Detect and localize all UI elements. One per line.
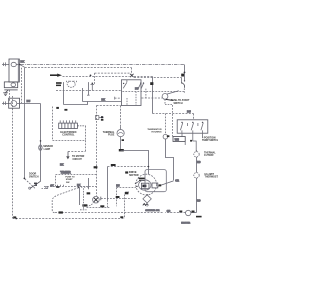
wire push-to-start down rail (172, 105, 174, 137)
svg-text:MOTOR: MOTOR (129, 174, 138, 177)
label HI-LIMIT THERMOSTAT (205, 173, 222, 179)
cluster right tick (87, 94, 90, 96)
wire splice to start circuit (134, 76, 153, 78)
svg-text:BK: BK (60, 163, 64, 166)
ground symbol (3, 90, 8, 96)
svg-text:SWITCH: SWITCH (29, 175, 39, 178)
motor inner winding ellipse (139, 180, 151, 190)
label DRIVE MOTOR (129, 171, 139, 177)
wire x107 drop (107, 167, 109, 201)
label RD heater left (179, 211, 182, 213)
label BK rail (94, 166, 98, 168)
svg-text:SWITCH: SWITCH (174, 103, 183, 105)
svg-text:CENTRIF. SW.: CENTRIF. SW. (145, 210, 160, 212)
to-motor arrow dashed link (68, 151, 86, 153)
temp switch mid contacts (187, 123, 198, 126)
push-to-start pivot dot (181, 82, 182, 83)
wire dashed harness top (97, 105, 121, 107)
centrifugal dark contacts (143, 204, 149, 206)
mid housing lower line (4, 89, 17, 91)
connector dashed extension (77, 125, 85, 127)
label WH y207 (100, 205, 104, 207)
heater element circle (186, 210, 191, 215)
node L1 junction (19, 64, 21, 66)
temp switch pole 3 (201, 122, 203, 133)
wire indicator to rail (165, 104, 173, 106)
wire temp switch drop (193, 114, 195, 120)
terminal block upper housing (9, 59, 19, 82)
label THERMISTOR HOUSING (147, 129, 162, 133)
timer contact ticks left (58, 185, 64, 187)
wire indicator drop (164, 99, 166, 104)
wire harness left dashed (52, 107, 54, 140)
to-motor arrow (66, 152, 69, 160)
svg-text:START: START (66, 178, 74, 181)
wire N to door circuit (17, 103, 41, 105)
wire dashed rail to splice (25, 67, 132, 69)
wire from dash-dot rail corner (184, 65, 186, 81)
wire dashed mid rail (56, 90, 122, 92)
junction sensor tap (40, 140, 42, 142)
door switch arm (30, 181, 40, 188)
hi-limit thermostat (194, 173, 199, 178)
terminal comp right of cluster (91, 83, 95, 91)
timer contact dark block (56, 186, 59, 188)
connector pins (60, 120, 75, 123)
thermal fuse (117, 126, 124, 150)
svg-text:THERMOSTAT: THERMOSTAT (205, 176, 219, 179)
wire down from thermistor (166, 139, 174, 180)
timer motor label block (56, 82, 62, 86)
wire timer down stub (79, 187, 81, 205)
sensor comp near rail (95, 116, 103, 120)
enclosure right dashed (85, 126, 87, 141)
svg-text:BK: BK (20, 60, 24, 64)
label RD heater right (192, 211, 195, 213)
indicator switch arm (167, 91, 179, 94)
wire pole3 stub (202, 133, 204, 137)
wire start box to indicator dashed (142, 97, 163, 99)
buzzer X (94, 198, 98, 202)
label below fuse (122, 139, 124, 141)
svg-text:TEMP SWITCH: TEMP SWITCH (202, 139, 218, 142)
wire BK dash-dot rail to push-to-start (20, 64, 184, 66)
label BU motor top (125, 171, 128, 173)
timer contacts row dashed (44, 186, 97, 188)
svg-text:BU: BU (187, 110, 191, 114)
label SENSOR LAMP (43, 146, 53, 151)
svg-text:OR: OR (175, 179, 179, 182)
push-to-start lower contact dot (184, 80, 185, 81)
wire N vertical to door switch (40, 104, 42, 182)
timer motor pin ticks (67, 81, 77, 83)
centrifugal switch enclosure (145, 170, 166, 192)
indicator arrow (166, 99, 174, 100)
wire junction diagonal (25, 179, 35, 189)
svg-text:TO MOTOR: TO MOTOR (72, 156, 85, 158)
timer sub labels (65, 176, 75, 184)
terminal block lower housing (9, 98, 20, 108)
wire timer out curve (52, 188, 78, 213)
start box inner dashed drop 2 (135, 92, 137, 106)
wire center dashed rail long (96, 106, 98, 197)
wire pole2 drop (192, 133, 194, 141)
label WH on rail (59, 211, 63, 213)
svg-text:CIRCUIT: CIRCUIT (73, 159, 83, 161)
svg-text:BU: BU (135, 87, 139, 90)
junction timer out (78, 187, 80, 189)
temperature selector switch box (177, 120, 208, 133)
start box switch 1 (123, 80, 127, 89)
door switch pivot circle (29, 187, 31, 189)
label BK buzzer (87, 192, 91, 194)
svg-text:BK: BK (77, 184, 81, 187)
wire bottom dashed rail (13, 218, 125, 220)
svg-text:HOUSING: HOUSING (152, 132, 162, 134)
wire harness drop to fuse (120, 106, 122, 127)
wire switch2 to indicator (145, 89, 147, 98)
thermal cutoff (194, 150, 199, 157)
start box inner dashed (122, 91, 185, 93)
junction bottom rail (15, 218, 17, 220)
power cord plug N (2, 101, 11, 105)
wire harness feed y73 (95, 72, 131, 74)
mid terminal oval (11, 83, 16, 87)
door switch out circle (46, 187, 48, 189)
svg-text:SW.: SW. (66, 182, 70, 184)
fuse terminal circle L1 (11, 62, 16, 66)
wire into start box left (115, 97, 122, 99)
wire centrifugal stub (146, 203, 148, 207)
svg-text:TIMER: TIMER (60, 170, 71, 174)
wire inner drop (82, 88, 84, 102)
timer feed arrow (50, 74, 62, 77)
svg-text:BK: BK (101, 98, 105, 101)
label THERMAL CUTOFF (204, 151, 216, 157)
wire corner to heater (191, 212, 197, 214)
svg-text:WH: WH (175, 137, 179, 141)
wire timer right drop (88, 178, 90, 189)
start box left tick (114, 97, 116, 100)
wire harness drop x94.5 (94, 73, 96, 84)
push-to-start curved arm (182, 83, 185, 88)
label right of thermistor (167, 135, 170, 137)
label TO MOTOR CIRCUIT (72, 156, 85, 161)
svg-text:LAMP: LAMP (44, 148, 51, 151)
wire riser to motor GY (124, 194, 126, 218)
label THERMAL FUSE (103, 131, 115, 137)
wire bottom WH rail (55, 212, 164, 214)
wire jog y104 (64, 102, 88, 105)
wire to temp switch dashed (153, 113, 194, 115)
label BK at EC corner (56, 107, 59, 109)
label GY near motor (125, 192, 128, 194)
wire second pin dashed (21, 68, 23, 103)
drive motor circle (136, 174, 157, 195)
motor inner contacts (135, 181, 139, 187)
svg-text:CONTROL: CONTROL (62, 134, 75, 137)
wire stub L1 to node (16, 64, 19, 66)
link riser (85, 141, 87, 152)
wire cluster right drop (88, 82, 90, 95)
wire cutoff to hi-limit (196, 157, 198, 173)
start box switch 2 (138, 82, 144, 89)
wire drop into splice (131, 68, 133, 75)
centrifugal block (152, 183, 158, 188)
motor inner dark mark (142, 185, 146, 188)
svg-text:GY: GY (50, 184, 54, 187)
label V pole2 (190, 140, 192, 142)
label BR (159, 184, 162, 186)
wire rail to push-to-start terminal (134, 77, 182, 79)
junction motor feed (148, 166, 150, 168)
wire x107 dashed tail (107, 200, 109, 207)
wire thermistor feed (165, 114, 167, 135)
junction on timer feed (90, 75, 92, 77)
label 4 POSITION TEMP SWITCH (202, 137, 219, 142)
svg-text:CUTOFF: CUTOFF (204, 154, 214, 157)
wire L1 switched rail (24, 68, 26, 178)
junction motor bottom (146, 194, 148, 196)
buzzer circle (93, 196, 100, 203)
connector WH box (173, 137, 185, 142)
timer contact ticks right (79, 186, 88, 188)
push-to-start lower terminal stub (183, 88, 185, 93)
wire OR diagonal to motor switch (158, 181, 174, 186)
wire dashed y207 (87, 207, 111, 209)
wire BK to start box (83, 101, 122, 103)
wire jog to heater chain (193, 141, 196, 151)
interlock start box (121, 80, 141, 106)
motor winding labels (139, 178, 146, 181)
svg-text:RD: RD (197, 161, 201, 164)
svg-text:FUSE: FUSE (108, 134, 115, 137)
centrifugal diamond (143, 195, 151, 203)
svg-text:RD: RD (197, 200, 201, 203)
svg-text:PUSH TO: PUSH TO (65, 176, 75, 178)
label BK cluster (64, 109, 67, 111)
splice X (130, 74, 134, 77)
wire start circuit drop (152, 77, 154, 114)
label BK right (181, 74, 184, 77)
label corner blob (119, 149, 124, 151)
motor inner box (141, 183, 149, 189)
wire dashed motor left feed (117, 187, 136, 189)
wire dashed x83.5 drop (83, 188, 85, 210)
temp switch pole 1 (180, 122, 182, 133)
wire dashed y166 motor feed (108, 166, 149, 168)
switch arm from L1 node (20, 65, 24, 68)
junction door feed (24, 178, 26, 180)
wire left dashed return rail (12, 96, 14, 218)
wire dashed y209.8 stub (80, 209, 87, 211)
label GY bottom rail right (120, 216, 123, 218)
svg-text:BU: BU (116, 184, 120, 187)
label PUSH-TO-START SWITCH (171, 99, 190, 105)
svg-text:HEATER: HEATER (181, 221, 190, 224)
svg-text:BU: BU (27, 99, 31, 103)
terminal block inner edge (17, 59, 19, 82)
power cord plug L1 (2, 62, 9, 66)
wire cluster left drop (63, 82, 65, 104)
label GY y198 (116, 196, 120, 198)
svg-text:SENSOR: SENSOR (43, 146, 53, 148)
thermistor circle (163, 134, 168, 139)
push-to-start upper terminal (181, 78, 183, 83)
tick y198 left (100, 197, 102, 201)
wire buzzer arc (87, 203, 94, 207)
wire neutral dashed drop (9, 90, 11, 101)
svg-text:OR: OR (167, 210, 171, 213)
terminal block mid housing (4, 82, 17, 88)
wire dashed y198 (101, 198, 137, 200)
wire timer feed dashed (63, 76, 130, 78)
label WH stub (82, 204, 87, 206)
wire heater dashed lead (165, 212, 186, 214)
electronic control connector (59, 123, 78, 128)
label BK bottom rail left (13, 216, 16, 218)
temp switch pole 2 (191, 122, 193, 133)
label 240V (196, 216, 202, 218)
label BK-OR (111, 164, 116, 166)
timer motor dashed ellipse (67, 81, 75, 87)
fuse terminal circle N (11, 101, 17, 107)
connector box drop (184, 142, 186, 146)
electronic control dashed enclosure bottom (53, 140, 87, 142)
wire door out stub (42, 187, 46, 189)
label near harness (101, 119, 104, 121)
wire fuse to motor (121, 151, 149, 175)
timer enclosure dashed (56, 175, 97, 187)
junction on push-to-start feed (184, 72, 186, 74)
wire hi-limit to heater (196, 178, 198, 213)
door switch contact marks (34, 183, 37, 186)
label ELECTRONIC CONTROL (60, 131, 76, 137)
svg-text:PUSH-TO-START: PUSH-TO-START (171, 99, 190, 102)
start box inner dashed drop 1 (126, 98, 128, 105)
wire pole1 drop (181, 133, 183, 136)
indicator circle (162, 94, 168, 100)
sensor lamp symbol (39, 145, 42, 150)
label on start drop (150, 82, 153, 85)
wire dashed x116 (116, 188, 118, 207)
label DOOR SWITCH (29, 173, 39, 179)
